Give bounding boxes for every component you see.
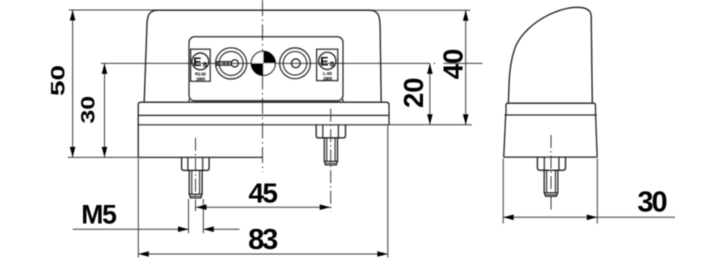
stud M5 right: centerline [330, 109, 332, 212]
wire: base bottom extension right [389, 124, 472, 126]
stud M5 right: hex collar [316, 125, 345, 138]
dimension 30 (side view depth) [503, 159, 675, 224]
dimension 40 [437, 10, 468, 125]
side stud centerline [550, 135, 552, 212]
side view base body [504, 115, 598, 157]
side stud threaded shank [544, 170, 558, 196]
svg-text:E: E [320, 55, 328, 69]
wire: bottom reference line left (mounting plane) [68, 156, 139, 158]
label plate rounded rect [189, 37, 343, 101]
stud M5 left: centerline [195, 138, 197, 211]
svg-text:40: 40 [437, 49, 468, 79]
svg-text:45: 45 [249, 178, 278, 209]
base bottom line [138, 124, 389, 126]
wire: top extension line left [69, 9, 158, 11]
svg-text:83: 83 [248, 224, 278, 256]
wire: stud edge extension lines for M5 dim [188, 199, 190, 233]
wire: top extension line right [368, 9, 470, 11]
side stud hex collar [537, 157, 565, 170]
lamp window circle left (with bulb symbol) [216, 48, 247, 79]
stud M5 left: threaded shank [189, 170, 202, 198]
wire: plate corner stub left [188, 99, 190, 102]
side view flange band [505, 103, 597, 115]
dimension 30 (front height to axis) [77, 63, 107, 157]
svg-text:1900: 1900 [323, 76, 333, 81]
svg-text:50: 50 [47, 65, 69, 96]
svg-text:8: 8 [203, 60, 207, 69]
wire: plate corner stub right [342, 99, 344, 102]
svg-text:30: 30 [637, 187, 666, 219]
svg-text:E: E [193, 55, 201, 69]
flange left edge [137, 104, 139, 157]
approval mark box E8 right [317, 49, 338, 81]
base deep-left bottom line [138, 156, 262, 158]
svg-text:M5: M5 [81, 200, 117, 230]
dimension 20 [398, 63, 433, 124]
approval mark box E8 left [191, 49, 211, 81]
stud M5 left: hex collar [182, 157, 210, 170]
flange right edge [388, 104, 390, 125]
wire: 83 extension right [387, 126, 389, 258]
lamp window circle right [280, 48, 311, 79]
svg-text:8: 8 [330, 59, 334, 68]
node: vertical centerline of lamp (dash-dot) [262, 0, 264, 172]
dimension M5 (thread size) [73, 200, 240, 232]
flange bottom line [138, 114, 389, 116]
wire: 83 extension left [137, 159, 139, 258]
photometric reference target (quartered circle) [251, 51, 275, 75]
svg-text:20: 20 [398, 77, 429, 108]
dimension 45 (stud spacing) [196, 178, 331, 210]
svg-text:1900: 1900 [196, 77, 206, 82]
lamp lens outline front view [144, 10, 381, 102]
side view lamp lens profile [508, 7, 592, 103]
flange top line [138, 102, 389, 105]
dimension 83 (overall width) [138, 224, 387, 257]
node: optical axis line [101, 62, 430, 64]
svg-text:30: 30 [77, 96, 99, 124]
dimension 50 [47, 10, 75, 157]
stud M5 right: threaded shank [324, 138, 337, 165]
